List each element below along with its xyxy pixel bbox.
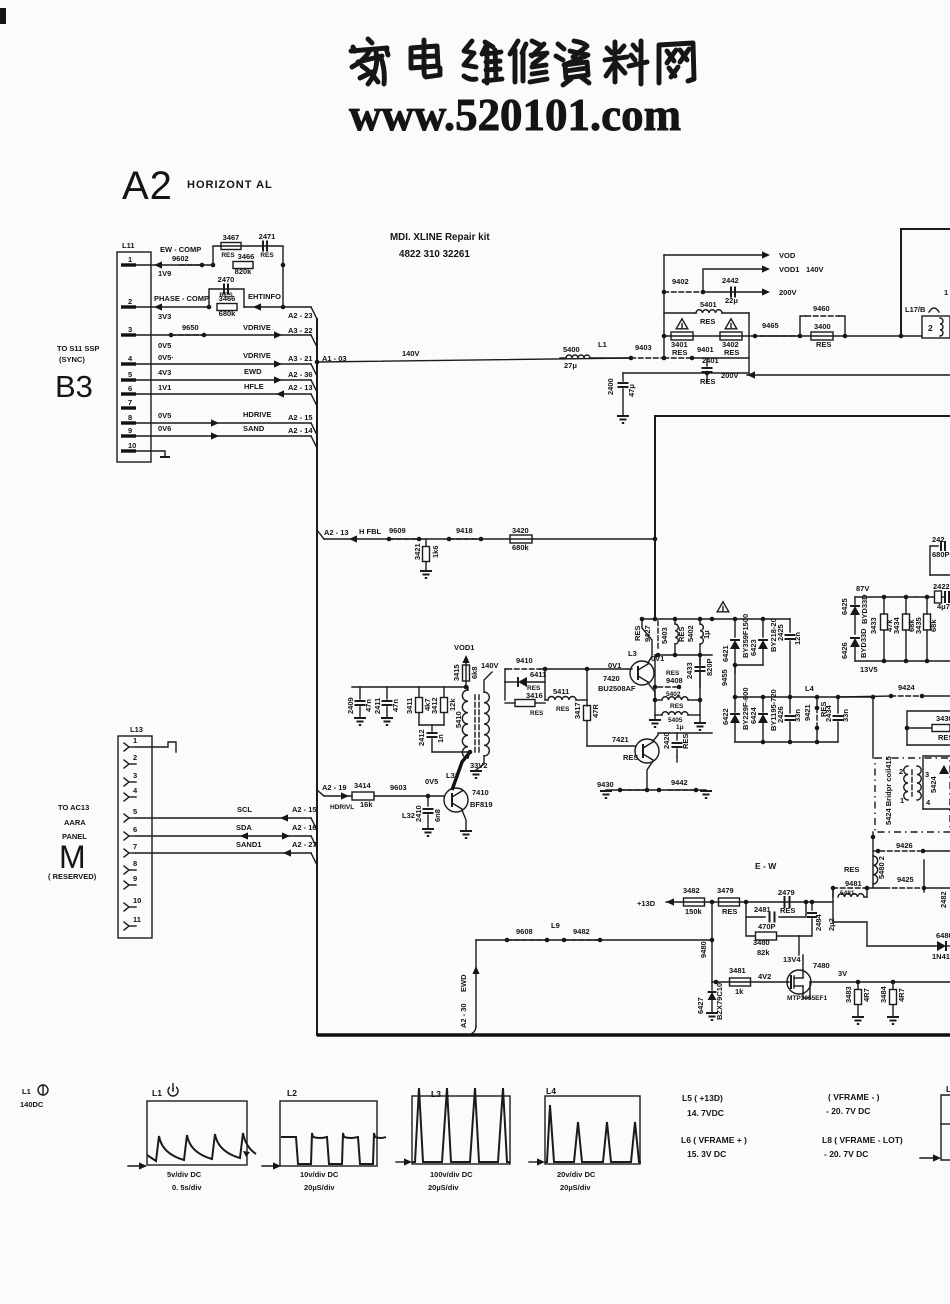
svg-text:10v/div DC: 10v/div DC [300,1170,339,1179]
capacitor 2400 47u [606,373,636,416]
warning triangle 3401 [676,319,688,329]
svg-text:7: 7 [133,842,137,851]
label RESERVED [48,872,97,881]
svg-text:PHASE - COMP: PHASE - COMP [154,294,209,303]
svg-text:L4: L4 [805,684,815,693]
svg-text:L17/B: L17/B [905,305,926,314]
scope L4 scale [557,1170,596,1192]
svg-text:1: 1 [944,288,948,297]
svg-text:9425: 9425 [897,875,914,884]
wire gate hook [788,981,789,983]
svg-text:2484: 2484 [814,913,823,931]
wire diag bus HFBL [317,530,324,539]
svg-text:82k: 82k [757,948,770,957]
wire 2420 bottom [676,757,678,762]
svg-text:6426: 6426 [840,642,849,659]
svg-text:5400: 5400 [563,345,580,354]
resistor 3400 RES [800,322,922,349]
svg-text:6: 6 [133,825,137,834]
wire 5401 right vert [748,313,750,373]
connector L13 pin 6 [124,825,137,840]
svg-text:A2 - 15: A2 - 15 [288,413,313,422]
transformer 5424 [899,766,938,807]
svg-text:3417: 3417 [573,702,582,719]
svg-text:EHTINFO: EHTINFO [248,292,281,301]
svg-text:RES: RES [556,706,570,713]
svg-text:SAND1: SAND1 [236,840,261,849]
dashed link 9427 RES [633,621,658,648]
resistor 3482 150k [683,886,705,916]
wire base line [432,750,472,755]
svg-text:RES: RES [816,340,831,349]
box 3430 RES [905,711,950,745]
transistor 7420 BU2508AF [598,649,664,693]
svg-text:RES: RES [938,733,950,742]
label M [59,839,86,875]
svg-text:RES: RES [780,906,795,915]
capacitor 2425 12n [776,624,802,697]
wire diag pin3 to bus [311,335,317,347]
svg-text:47R: 47R [591,704,600,718]
node EW network left [211,263,216,268]
connector L13 pin 8 [124,859,137,874]
connector L11 pin 7 [121,398,136,408]
watermark glyph zi [556,41,589,85]
dashed link 9403 [629,343,667,360]
svg-text:3435: 3435 [914,617,923,634]
svg-text:2470: 2470 [218,275,235,284]
resistor 3466 820k [233,252,254,276]
svg-text:A2 - 15: A2 - 15 [292,805,317,814]
svg-text:A2 - 16: A2 - 16 [292,823,317,832]
svg-text:140V: 140V [402,349,420,358]
ground bias right [694,723,706,730]
wire 7420 emitter [648,683,655,700]
svg-text:1V9: 1V9 [158,269,171,278]
resistor 3411 4k7 [405,687,432,725]
wire 7410 emitter [460,810,472,838]
svg-text:5424 Bridpr coil415: 5424 Bridpr coil415 [884,756,893,825]
svg-text:1μ: 1μ [702,630,711,639]
svg-text:0V5: 0V5 [158,341,171,350]
wire VOD1 arrow [703,265,824,292]
svg-text:2: 2 [128,297,132,306]
dashed link 9408 RES [653,670,683,689]
capacitor 2471 [259,232,276,259]
svg-text:5: 5 [128,370,132,379]
svg-text:L5 ( +13D): L5 ( +13D) [682,1093,723,1103]
svg-text:RES: RES [623,753,638,762]
svg-text:12n: 12n [793,632,802,645]
svg-text:2400: 2400 [606,378,615,395]
connector L13 pin 4 [124,786,138,801]
wire diag SDA to bus [311,836,317,848]
svg-text:L6 ( VFRAME + ): L6 ( VFRAME + ) [681,1135,747,1145]
inductor 5401 RES [696,300,722,326]
svg-text:2411: 2411 [373,698,382,714]
watermark url text [349,89,681,140]
svg-text:3411: 3411 [405,698,414,714]
svg-text:L8 ( VFRAME - LOT): L8 ( VFRAME - LOT) [822,1135,903,1145]
svg-text:3466: 3466 [219,294,236,303]
svg-text:0V6: 0V6 [158,424,171,433]
svg-text:0V5: 0V5 [158,411,171,420]
svg-text:87V: 87V [856,584,869,593]
wire pin3 VDRIVE [136,323,313,339]
svg-text:2426: 2426 [776,706,785,723]
svg-text:15. 3V DC: 15. 3V DC [687,1149,726,1159]
label L1 140DC [20,1085,48,1109]
capacitor 2422 4u7 [916,582,950,611]
svg-text:9650: 9650 [182,323,199,332]
svg-text:2434: 2434 [824,704,833,722]
dashed link 9402 [662,277,706,294]
svg-text:2442: 2442 [722,276,739,285]
svg-text:5411: 5411 [553,687,569,696]
svg-text:9480: 9480 [699,941,708,958]
svg-text:M: M [59,839,86,875]
mosfet 7480 MTP3055EF1 [783,955,847,1002]
wire diag SCL to bus [311,818,317,830]
diode 6421 BY359F1500 [721,614,750,673]
svg-text:TO S11 SSP: TO S11 SSP [57,344,99,353]
svg-text:9482: 9482 [573,927,590,936]
svg-text:www.520101.com: www.520101.com [349,89,681,140]
svg-text:9402: 9402 [672,277,689,286]
wire diode 6480 line [0,0,950,961]
svg-text:4: 4 [128,354,133,363]
ground 3421 [420,571,432,578]
svg-text:2412: 2412 [417,729,426,746]
svg-text:5410: 5410 [454,711,463,728]
node HFBL box edge [653,537,658,542]
watermark glyph wei [464,41,502,83]
warning triangle 3402 [725,319,737,329]
scope L1 box [147,1084,247,1165]
wire pin2 PHASE-COMP [136,294,209,311]
label 3V3 [158,312,171,321]
svg-text:EWD: EWD [459,974,468,992]
svg-text:L: L [946,1084,950,1094]
svg-text:820P: 820P [705,658,714,676]
wire 5481 node to +13D [832,888,834,922]
svg-text:BYD33D: BYD33D [860,594,869,624]
svg-text:13V4: 13V4 [783,955,801,964]
label B3 [55,369,93,404]
wire EHTINFO [244,292,311,311]
wire 2401 bottom link [623,371,749,376]
svg-text:9421: 9421 [803,704,812,721]
wire 9410 row [505,656,628,682]
svg-text:RES: RES [530,710,544,717]
svg-text:2479: 2479 [778,888,795,897]
capacitor 2482 [924,888,948,908]
svg-text:2482: 2482 [939,891,948,908]
dashed link 9650 [171,334,204,336]
svg-text:9408: 9408 [666,676,683,685]
label L8 VFRAME-LOT [822,1135,903,1159]
label VFRAME- [826,1092,880,1116]
wire caps rail [352,685,468,690]
watermark glyph jia [351,39,388,84]
svg-text:9481: 9481 [845,879,862,888]
wire 6411 frame [505,669,545,700]
connector L11 box [117,241,151,462]
svg-text:AARA: AARA [64,818,86,827]
svg-text:RES: RES [700,317,715,326]
svg-text:RES: RES [221,252,235,259]
svg-text:9465: 9465 [762,321,779,330]
connector L11 pin 10 [121,441,136,451]
resistor 3420 680k [510,526,532,552]
wire diag pin4 to bus [311,364,317,376]
svg-text:1N4148: 1N4148 [932,952,950,961]
svg-text:5402: 5402 [686,625,695,642]
wire bridge lower vertical [871,832,876,888]
resistor 3433 47k [869,597,894,661]
svg-text:9602: 9602 [172,254,189,263]
svg-text:1k6: 1k6 [431,545,440,558]
svg-text:9460: 9460 [813,304,830,313]
scope L3 trace [412,1088,510,1162]
svg-text:HDRIVE: HDRIVE [243,410,271,419]
svg-text:HORIZONT AL: HORIZONT AL [187,179,273,191]
resistor 3479 RES [717,886,740,916]
scope L2 trace [281,1133,386,1164]
svg-text:5v/div DC: 5v/div DC [167,1170,202,1179]
svg-text:L1: L1 [152,1088,162,1098]
scope L1 scale [167,1170,202,1192]
svg-text:RES: RES [724,348,739,357]
svg-text:47n: 47n [364,699,373,712]
wire 6423 join [733,663,763,668]
resistor 3467 [221,233,241,259]
svg-text:6411: 6411 [530,670,546,679]
svg-text:470P: 470P [758,922,776,931]
diode 6411 [505,670,546,687]
svg-text:VOD1: VOD1 [454,643,474,652]
svg-text:3420: 3420 [512,526,529,535]
svg-text:L1: L1 [598,340,607,349]
inductor 5411 RES [545,687,587,713]
resistor 3481 1k [729,966,771,996]
wire 7421 collector [653,733,712,741]
scope L4 baseline arrow [529,1158,545,1165]
svg-text:2409: 2409 [346,697,355,714]
wire phase network frame [209,289,244,307]
svg-text:2μ2: 2μ2 [827,918,836,931]
inductor 5480 2 [873,856,886,884]
svg-text:680k: 680k [512,543,530,552]
connector L13 pin 1 [124,736,137,751]
resistor 3402 RES [720,332,742,357]
svg-text:RES: RES [672,348,687,357]
wire 7421 base [587,745,635,747]
svg-text:10: 10 [133,896,141,905]
wire 9401 row [664,345,749,360]
svg-text:BF819: BF819 [470,800,493,809]
svg-text:VDRIVE: VDRIVE [243,323,271,332]
svg-text:140V: 140V [481,661,499,670]
wire EW output path [833,922,867,946]
svg-text:3430: 3430 [936,714,950,723]
dashed link 9425 [885,860,950,890]
resistor 3434 68k [892,597,916,661]
svg-text:1: 1 [133,736,137,745]
transformer 5410 [454,672,492,778]
dashed link 9410 [507,668,540,670]
label 0V5 pin3 [158,341,171,350]
connector L13 pin 11 [124,915,141,930]
wire bias column left [654,655,656,715]
transformer L17/B box [899,229,950,338]
wire pin10 stub [136,451,170,457]
svg-text:RES: RES [670,703,684,710]
svg-text:20µS/div: 20µS/div [428,1183,459,1192]
capacitor 2470 [218,275,235,299]
svg-text:3V: 3V [838,969,847,978]
diode 6425 BYD33D [840,594,869,634]
svg-text:9603: 9603 [390,783,407,792]
resistor 3435 68k [914,597,938,661]
wire bias column right [699,655,701,722]
svg-text:L1: L1 [22,1087,31,1096]
connector L11 pin 5 [121,370,136,380]
big box bottom edge [317,1033,950,1036]
connector L11 pin 2 [121,297,136,307]
scope L4 box [545,1086,640,1164]
svg-text:VOD: VOD [779,251,796,260]
wire VOD arrow [664,251,796,260]
svg-text:E - W: E - W [755,861,777,871]
label 33V2 [470,761,488,770]
label L6 VFRAME+ [681,1135,747,1159]
capacitor 2411 47n [373,687,400,725]
svg-text:A2 - 19: A2 - 19 [322,783,347,792]
svg-text:20µS/div: 20µS/div [560,1183,591,1192]
connector L11 pin 3 [121,325,136,335]
svg-text:0. 5s/div: 0. 5s/div [172,1183,202,1192]
svg-text:8: 8 [133,859,137,868]
svg-text:200V: 200V [779,288,797,297]
capacitor 2426 33n [776,697,802,742]
ground 9430 [600,791,612,798]
wire bridge vertical [872,697,874,758]
wire 9460 bypass [800,304,845,336]
svg-text:4V3: 4V3 [158,368,171,377]
svg-text:5480 2: 5480 2 [877,856,886,879]
wire VOD feed vertical [663,255,665,358]
dashed link 9465 [760,321,802,338]
dashed link 9442 [668,778,696,790]
watermark glyph wang [659,43,694,83]
svg-text:7421: 7421 [612,735,629,744]
zener 6427 BZX79C10 [696,982,724,1020]
wire SAND1 [136,840,317,857]
resistor 3480 82k [753,932,777,957]
wire diag EHTINFO to bus [311,307,317,319]
svg-text:5402: 5402 [666,691,681,698]
wire 87V rail [855,584,916,599]
connector L13 pin 10 [124,896,141,911]
svg-text:HDRIVL: HDRIVL [330,804,354,811]
capacitor 2420 RES [662,732,690,757]
scope L4 trace [545,1105,641,1162]
connector L11 pin 8 [121,413,136,423]
svg-text:3421: 3421 [413,543,422,560]
svg-text:1: 1 [128,255,132,264]
resistor 3415 6k8 [452,661,499,681]
svg-text:TO AC13: TO AC13 [58,803,89,812]
capacitor 2410 6n8 [402,794,442,828]
wire diag SAND1 to bus [311,853,317,865]
watermark glyph xiu [510,41,547,82]
svg-text:RES: RES [677,627,686,642]
node phase network left [207,305,212,310]
svg-text:9418: 9418 [456,526,473,535]
svg-text:(SYNC): (SYNC) [59,355,85,364]
label A1-03 [322,354,347,363]
warning triangle rail [717,602,729,612]
svg-text:3433: 3433 [869,617,878,634]
connector L13 pin 2 [124,753,137,768]
scope L2 scale [300,1170,339,1192]
svg-text:B3: B3 [55,369,93,404]
svg-text:A2 - 13: A2 - 13 [324,528,349,537]
svg-text:6425: 6425 [840,598,849,615]
svg-text:4R7: 4R7 [897,988,906,1002]
svg-text:9455: 9455 [720,669,729,686]
svg-text:5: 5 [133,807,137,816]
svg-text:2: 2 [899,767,903,776]
svg-text:100v/div DC: 100v/div DC [430,1170,473,1179]
svg-text:2: 2 [928,323,933,333]
svg-text:1n: 1n [436,734,445,743]
dashed link 9481 [831,886,885,891]
svg-text:- 20. 7V DC: - 20. 7V DC [824,1149,868,1159]
svg-text:MDI. XLINE Repair kit: MDI. XLINE Repair kit [390,232,490,243]
wire pin8 HDRIVE [136,410,313,427]
svg-text:3481: 3481 [729,966,746,975]
svg-text:33n: 33n [793,709,802,722]
svg-text:3466: 3466 [238,252,255,261]
ground bias left [649,715,661,727]
label 1V9 [158,269,171,278]
svg-text:9: 9 [133,874,137,883]
dashed link 9430 [597,780,645,790]
scope right partial box [920,1084,950,1162]
label pin 1 flyback [929,288,948,312]
inductor 5402 RES [653,691,703,710]
svg-text:14. 7VDC: 14. 7VDC [687,1108,724,1118]
svg-text:2420: 2420 [662,732,671,749]
connector L11 pin 1 [121,255,136,265]
wire 7420 collector [640,617,652,663]
svg-text:3412: 3412 [430,697,439,714]
dashed link 9609 [389,526,421,541]
svg-text:140V: 140V [806,265,824,274]
wire 9455 vertical [720,665,735,697]
svg-text:6k8: 6k8 [470,666,479,679]
svg-text:3400: 3400 [814,322,831,331]
resistor 3416 RES [505,685,545,717]
svg-text:4: 4 [926,798,931,807]
transformer winding box pin2 [922,316,950,338]
label TO S11 SSP [57,344,99,364]
svg-text:20v/div DC: 20v/div DC [557,1170,596,1179]
capacitor 2409 47n [346,687,373,725]
svg-text:- 20. 7V DC: - 20. 7V DC [826,1106,870,1116]
